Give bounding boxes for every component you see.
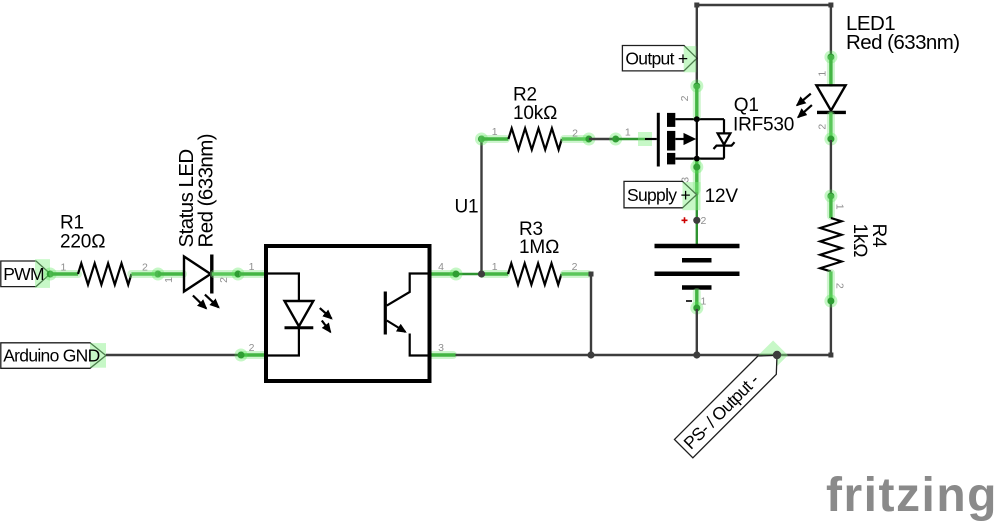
svg-text:1: 1 (492, 126, 498, 138)
wire Arduino GND to U1 pin2 (106, 354, 240, 356)
wire battery to rail (696, 309, 698, 355)
wire rail corner up to R4 (828, 300, 833, 358)
fritzing logo (826, 469, 998, 522)
node R1-LED wire end (152, 268, 165, 281)
svg-text:Supply +: Supply + (627, 185, 690, 205)
node wire end at R4 (824, 190, 837, 203)
svg-text:1kΩ: 1kΩ (849, 224, 870, 258)
svg-text:12V: 12V (705, 186, 739, 207)
R3 pin 2 (572, 261, 578, 273)
svg-text:2: 2 (142, 261, 148, 273)
wire bottom rail (456, 354, 831, 356)
Q1 drain pin stub (693, 85, 701, 119)
LED1 top wire end node (824, 51, 837, 64)
wire R3 down to rail (589, 272, 594, 356)
junction node U1/R2/R3 (478, 270, 485, 277)
R2 pin 1 (492, 126, 498, 138)
node LED-U1 wire end (232, 268, 245, 281)
wire R2 to Q1 gate (589, 138, 616, 140)
svg-text:1: 1 (492, 261, 498, 273)
svg-text:2: 2 (249, 342, 255, 354)
svg-text:Arduino GND: Arduino GND (3, 346, 99, 366)
svg-text:U1: U1 (455, 196, 479, 217)
node below source (690, 161, 703, 174)
svg-text:IRF530: IRF530 (733, 114, 794, 135)
svg-text:1: 1 (834, 204, 846, 210)
net label Output + (622, 46, 697, 73)
node wire end at Q1 drain (690, 80, 703, 93)
svg-text:2: 2 (572, 261, 578, 273)
battery bottom pin stub (693, 290, 701, 309)
node wire end (609, 133, 622, 146)
R1 pin 1 (61, 261, 67, 273)
svg-text:2: 2 (218, 277, 230, 283)
battery positive junction node (693, 217, 700, 224)
R3 pin 1 (492, 261, 498, 273)
battery pin 2 (701, 215, 707, 227)
wire LED1 to R4 (830, 140, 832, 195)
battery pin 1 (701, 296, 707, 308)
Q1 drain pin 2 (679, 95, 691, 101)
Q1 gate pad (638, 132, 652, 146)
junction node PS label/rail (773, 351, 781, 359)
net label PWM (1, 259, 50, 288)
LED1 emission arrows (797, 94, 812, 118)
node LED1 bottom wire end (824, 133, 837, 146)
LED1 (diode symbol) (816, 56, 846, 140)
net label Supply + (624, 181, 701, 210)
svg-text:2: 2 (572, 128, 578, 140)
resistor R1 (52, 263, 159, 284)
R2 pin 2 (572, 128, 578, 140)
node Q1 drain dot (694, 116, 700, 122)
R4 pin 2 (834, 283, 846, 289)
svg-text:220Ω: 220Ω (60, 231, 106, 252)
R1 value label (60, 213, 106, 253)
svg-text:Q1: Q1 (734, 95, 759, 116)
svg-text:PWM: PWM (3, 264, 44, 284)
node battery bottom wire end (690, 302, 703, 315)
svg-text:R4: R4 (868, 224, 889, 249)
U1 pin 3 (430, 342, 456, 355)
svg-text:1: 1 (61, 261, 67, 273)
svg-text:1: 1 (816, 71, 828, 77)
svg-text:1: 1 (625, 126, 631, 138)
corner nub left (694, 3, 699, 8)
LED1 pin 2 (816, 124, 828, 130)
svg-text:R1: R1 (60, 213, 84, 234)
svg-text:1: 1 (249, 261, 255, 273)
svg-text:Red (633nm): Red (633nm) (195, 134, 218, 248)
junction node battery/rail (693, 351, 700, 358)
node GND wire end (235, 349, 248, 362)
svg-text:3: 3 (438, 342, 444, 354)
U1 pin 1 (240, 261, 266, 274)
svg-text:2: 2 (679, 95, 691, 101)
battery minus sign (686, 300, 692, 302)
R2 value label (513, 85, 557, 124)
svg-text:fritzing: fritzing (826, 469, 998, 522)
resistor R3 (482, 263, 592, 284)
wire LED to U1 pin1 (238, 273, 243, 275)
resistor R2 (482, 128, 589, 149)
node PWM tip (44, 268, 57, 281)
svg-text:1MΩ: 1MΩ (519, 237, 559, 258)
battery BAT1 (655, 246, 740, 288)
wire green to gate (616, 138, 645, 140)
corner nub right (828, 3, 833, 8)
svg-text:Output +: Output + (625, 48, 687, 68)
node corner at R2 (475, 133, 488, 146)
LED1 label (846, 12, 960, 54)
U1 pin 2 (240, 342, 266, 355)
battery plus sign (682, 217, 688, 223)
Status LED label (175, 134, 218, 248)
Status LED pin 2 (218, 277, 230, 283)
Q1 source pin 3 (679, 177, 691, 183)
Q1 gate pin 1 (625, 126, 631, 138)
wire junction up to R2 (480, 139, 482, 274)
LED1 pin 1 (816, 71, 828, 77)
Q1 source pin stub / wire to battery (693, 159, 701, 246)
net label PS- / Output - (rotated 45) (674, 340, 791, 457)
R4 pin 1 (834, 204, 846, 210)
R1 pin 2 (142, 261, 148, 273)
svg-text:2: 2 (834, 283, 846, 289)
wire top rail (697, 5, 831, 85)
U1 reference label (455, 196, 479, 217)
svg-text:2: 2 (701, 215, 707, 227)
svg-text:2: 2 (816, 124, 828, 130)
node Q1 source dot (694, 156, 700, 162)
Status LED emission arrows (193, 295, 219, 309)
battery voltage label 12V (705, 186, 739, 207)
svg-text:1: 1 (163, 277, 175, 283)
R4 value label (849, 224, 889, 258)
svg-text:4: 4 (438, 261, 444, 273)
R3 value label (519, 219, 559, 258)
node R4 bottom wire end (824, 295, 837, 308)
Status LED pin 1 (163, 277, 175, 283)
net label Arduino GND (1, 343, 106, 369)
optocoupler U1 body (266, 246, 430, 381)
U1 pin 4 (430, 261, 456, 274)
LED Status (diode symbol) (158, 255, 238, 294)
wire U1 pin4 to junction (456, 273, 482, 275)
resistor R4 (vertical) (820, 195, 841, 300)
Q1 reference label (733, 95, 794, 135)
svg-text:10kΩ: 10kΩ (513, 103, 557, 124)
svg-text:Red (633nm): Red (633nm) (846, 31, 960, 54)
wire PWM to R1 (50, 273, 53, 275)
transistor Q1 MOSFET (645, 113, 735, 167)
node wire end at pin4 (450, 268, 463, 281)
junction node R3/rail (587, 351, 594, 358)
node R2 pin2 wire end (582, 133, 595, 146)
